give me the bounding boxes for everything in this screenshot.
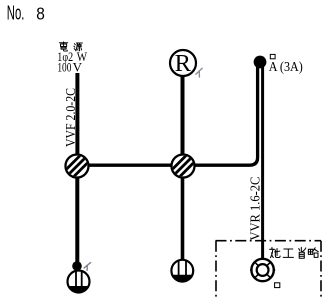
svg-text:R: R	[175, 50, 192, 77]
title No. 8	[7, 2, 45, 24]
outlet (wall socket) below switch	[68, 271, 90, 293]
svg-text:No.: No.	[7, 2, 25, 24]
power source label 電源 1φ2W 100V	[59, 42, 82, 51]
lamp receptacle R	[170, 50, 196, 77]
wire: JB2 right then elbow up to automatic switch	[183, 62, 258, 165]
switch イ (tumbler switch, filled dot)	[72, 261, 82, 271]
wire: JB1 down to switch イ	[75, 166, 79, 263]
wire: JB2 up to lamp receptacle R	[181, 74, 185, 166]
dashed box 施工省略 (installation omitted)	[216, 241, 322, 300]
junction box JB1 (hatched circle)	[61, 150, 92, 181]
svg-text:A (3A): A (3A)	[269, 59, 303, 74]
outdoor light ロ (double circle with ticks)	[250, 259, 275, 281]
text 施工省略	[270, 247, 319, 258]
label イ (lamp receptacle)	[196, 68, 202, 77]
wire: JB2 down to outlet	[181, 166, 185, 263]
svg-text:VVR 1.6-2C: VVR 1.6-2C	[248, 177, 263, 241]
junction box JB2 (hatched circle)	[167, 150, 198, 181]
wire: JB1 to JB2 horizontal run	[77, 163, 183, 166]
wire: power feed from source down to junction box JB1	[75, 73, 79, 160]
svg-text:8: 8	[36, 3, 45, 23]
wire: automatic switch down to outdoor light	[261, 62, 264, 259]
outlet (wall socket) bottom-center	[171, 260, 193, 282]
svg-text:100: 100	[57, 60, 71, 75]
label ロ (outdoor light)	[275, 283, 280, 288]
automatic switch A(3A)	[254, 56, 267, 69]
label ロ (automatic switch)	[270, 54, 275, 58]
svg-text:VVF 2.0-2C: VVF 2.0-2C	[64, 88, 79, 147]
label イ (switch)	[84, 263, 91, 271]
svg-text:V: V	[73, 60, 83, 75]
